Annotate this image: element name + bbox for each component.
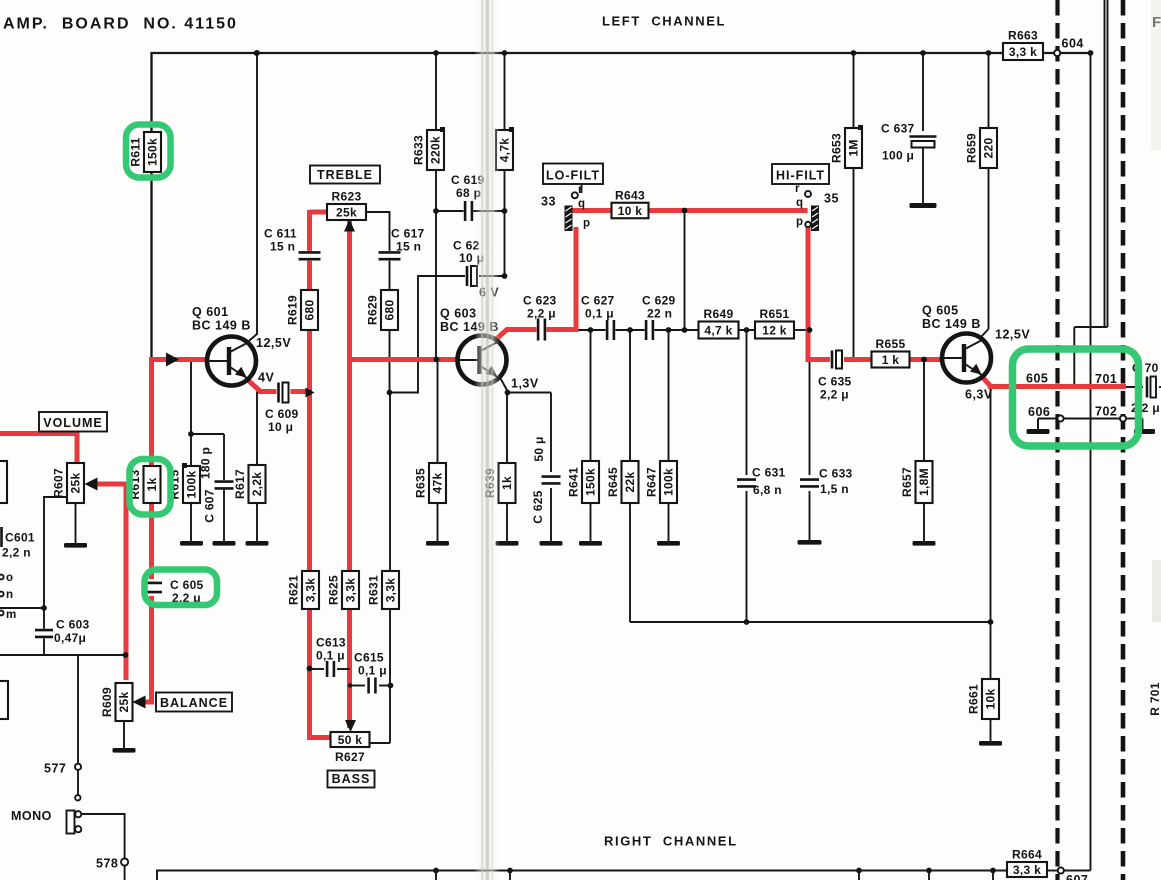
svg-text:680: 680 [303,300,317,321]
svg-text:RIGHT CHANNEL: RIGHT CHANNEL [604,834,738,849]
svg-text:R625: R625 [327,575,341,605]
svg-text:3,3k: 3,3k [344,578,358,603]
svg-text:q: q [578,198,585,210]
svg-text:680: 680 [383,300,397,321]
svg-text:R651: R651 [760,307,790,321]
svg-text:R643: R643 [615,188,645,202]
svg-text:6,8 n: 6,8 n [753,483,782,497]
svg-text:25k: 25k [117,692,131,713]
svg-text:C 617: C 617 [391,227,425,241]
svg-text:R655: R655 [876,337,906,351]
svg-text:50 k: 50 k [338,733,363,747]
svg-text:22 n: 22 n [647,307,672,321]
svg-text:R611: R611 [129,137,143,166]
svg-text:R663: R663 [1008,29,1038,43]
svg-text:R645: R645 [606,467,620,497]
svg-text:25k: 25k [336,206,357,220]
svg-text:0,1 μ: 0,1 μ [585,307,614,321]
svg-text:15 n: 15 n [270,240,295,254]
svg-text:p: p [583,218,590,230]
svg-text:R661: R661 [967,684,981,714]
svg-text:R609: R609 [100,687,114,717]
svg-text:35: 35 [824,192,839,206]
svg-text:LO-FILT: LO-FILT [546,169,600,183]
svg-text:C 603: C 603 [56,618,90,632]
svg-text:1,8M: 1,8M [917,468,931,496]
svg-text:R647: R647 [645,467,659,497]
svg-text:3,3 k: 3,3 k [1013,863,1041,877]
svg-text:2,2 μ: 2,2 μ [527,307,556,321]
svg-text:AMP. BOARD NO. 41150: AMP. BOARD NO. 41150 [3,16,238,33]
svg-text:C615: C615 [354,651,384,665]
svg-text:0,1 μ: 0,1 μ [316,649,345,663]
svg-text:R 701: R 701 [1148,682,1161,716]
svg-text:C 611: C 611 [264,227,297,241]
svg-text:4,7 k: 4,7 k [704,324,732,338]
svg-text:R664: R664 [1012,848,1042,862]
svg-text:C601: C601 [5,531,35,545]
svg-text:577: 577 [44,762,66,776]
svg-text:C 623: C 623 [523,294,557,308]
svg-text:R621: R621 [287,575,301,605]
svg-text:22k: 22k [623,472,637,493]
svg-text:o: o [6,572,13,584]
svg-text:10k: 10k [984,689,998,710]
svg-text:0,47μ: 0,47μ [54,631,86,645]
svg-text:150k: 150k [584,468,598,496]
svg-text:150k: 150k [146,138,160,166]
svg-text:R653: R653 [830,133,844,163]
svg-text:HI-FILT: HI-FILT [776,169,825,183]
svg-text:702: 702 [1095,405,1117,419]
svg-text:606: 606 [1028,405,1050,419]
svg-text:3,3k: 3,3k [384,578,398,603]
svg-text:C 605: C 605 [170,578,204,592]
svg-text:10 k: 10 k [618,204,643,218]
svg-text:Q 603: Q 603 [440,307,477,321]
svg-text:C 635: C 635 [818,375,852,389]
svg-text:R629: R629 [366,295,380,325]
svg-text:3,3 k: 3,3 k [1009,45,1037,59]
svg-text:701: 701 [1095,372,1117,386]
svg-text:C 633: C 633 [819,467,853,481]
svg-text:C 629: C 629 [642,294,676,308]
svg-text:R657: R657 [900,467,914,497]
svg-text:4V: 4V [258,371,274,385]
svg-text:220k: 220k [429,136,443,164]
svg-text:100k: 100k [185,471,199,499]
svg-text:607: 607 [1066,873,1088,880]
svg-text:R623: R623 [332,190,362,204]
svg-text:1,5 n: 1,5 n [820,482,849,496]
svg-text:1M: 1M [847,139,861,156]
svg-text:R633: R633 [412,135,426,165]
svg-text:10 μ: 10 μ [268,420,293,434]
svg-text:604: 604 [1062,37,1084,51]
svg-text:12,5V: 12,5V [995,328,1030,342]
svg-text:2,2 μ: 2,2 μ [820,388,849,402]
svg-text:1 k: 1 k [882,353,900,367]
svg-text:R619: R619 [286,295,300,325]
svg-text:6,3V: 6,3V [965,388,993,402]
svg-text:100k: 100k [662,468,676,496]
svg-text:1,3V: 1,3V [511,377,539,391]
svg-text:BALANCE: BALANCE [160,696,228,710]
svg-text:180 p: 180 p [199,447,213,479]
svg-text:r: r [795,183,800,195]
svg-text:VOLUME: VOLUME [43,416,102,430]
svg-text:n: n [6,589,13,601]
svg-text:MONO: MONO [11,809,52,823]
svg-text:Q 601: Q 601 [192,305,229,319]
svg-text:47k: 47k [431,473,445,494]
svg-text:2,2 n: 2,2 n [2,546,31,560]
svg-text:50 μ: 50 μ [532,436,546,461]
svg-text:605: 605 [1026,372,1048,386]
svg-text:25k: 25k [69,473,83,494]
svg-text:BC 149 B: BC 149 B [192,319,251,333]
svg-text:578: 578 [96,857,118,871]
svg-text:12 k: 12 k [762,324,787,338]
svg-text:C 631: C 631 [752,466,786,480]
svg-text:1k: 1k [145,478,159,492]
svg-text:R627: R627 [335,750,365,764]
svg-text:C 609: C 609 [265,407,299,421]
svg-text:220: 220 [982,138,996,159]
svg-text:Q 605: Q 605 [922,304,959,318]
svg-text:0,1 μ: 0,1 μ [358,664,387,678]
svg-text:C 627: C 627 [581,294,615,308]
svg-text:12,5V: 12,5V [256,336,291,350]
svg-text:R631: R631 [367,575,381,605]
svg-text:C 637: C 637 [881,122,915,136]
svg-text:LEFT CHANNEL: LEFT CHANNEL [602,14,726,29]
svg-text:1k: 1k [500,476,514,490]
svg-text:C 607: C 607 [203,489,217,523]
svg-text:3,3k: 3,3k [304,578,318,603]
svg-text:m: m [6,609,16,621]
svg-text:R641: R641 [567,467,581,497]
svg-text:R607: R607 [52,468,66,498]
svg-text:33: 33 [541,195,556,209]
svg-text:R635: R635 [414,468,428,498]
svg-text:R659: R659 [965,133,979,163]
svg-text:p: p [796,216,803,228]
svg-text:BASS: BASS [332,772,371,786]
svg-text:TREBLE: TREBLE [317,168,373,182]
svg-text:BC 149 B: BC 149 B [922,317,981,331]
svg-text:R649: R649 [704,307,734,321]
svg-text:R617: R617 [233,469,247,499]
svg-text:q: q [796,197,803,209]
svg-text:C613: C613 [316,636,346,650]
svg-text:100 μ: 100 μ [882,149,914,163]
svg-text:2,2k: 2,2k [250,472,264,497]
svg-text:C 625: C 625 [531,490,545,524]
